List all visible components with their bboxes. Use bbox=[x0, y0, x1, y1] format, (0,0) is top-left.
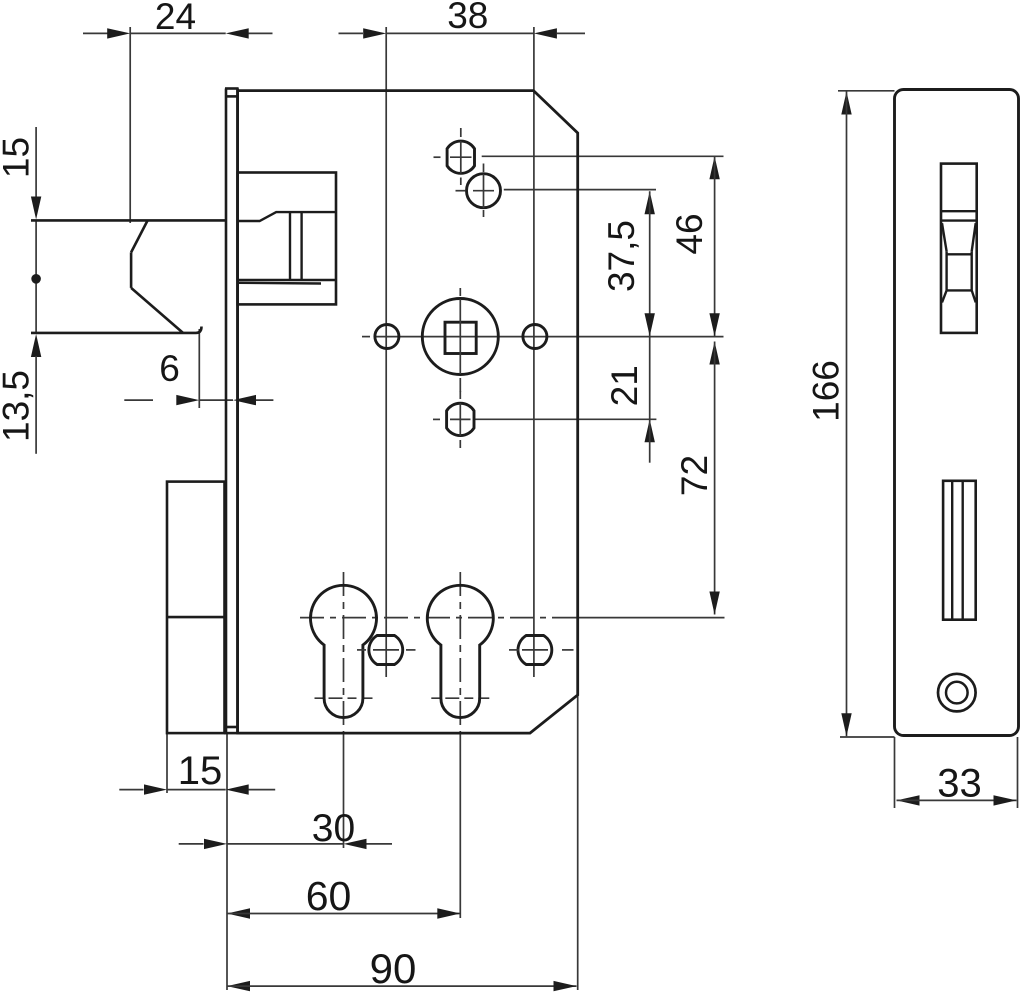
spindle follower circle bbox=[422, 299, 498, 375]
latch bolt head bbox=[31, 220, 226, 333]
svg-text:15: 15 bbox=[178, 749, 223, 793]
deadbolt cutout bbox=[943, 481, 976, 620]
cylinder centerline right x=460.3 bbox=[459, 572, 461, 918]
extension line x=534 (38-dim right ref) bbox=[533, 27, 535, 677]
dimension 72 bbox=[674, 342, 720, 615]
svg-text:72: 72 bbox=[674, 455, 715, 496]
dimension 37,5 bbox=[601, 191, 655, 336]
faceplate left edge bbox=[225, 89, 228, 734]
cylinder hole right (europrofile) bbox=[427, 585, 493, 717]
dimension 15 bottom bbox=[119, 749, 275, 795]
latch tail box bbox=[238, 173, 336, 305]
svg-text:60: 60 bbox=[306, 873, 352, 919]
dimension 15 left bbox=[0, 127, 41, 454]
extension line y=332.9 (latch bottom) bbox=[31, 332, 199, 334]
svg-text:37,5: 37,5 bbox=[601, 220, 642, 292]
svg-text:30: 30 bbox=[312, 807, 355, 850]
extension line y=189.5 (upper hole to 37.5-dim) bbox=[504, 189, 656, 191]
cylinder cross line left y=698 bbox=[315, 697, 373, 699]
extension line y=419.3 (lower screw hole to 21-dim) bbox=[475, 418, 657, 420]
dimension 90 bbox=[227, 945, 577, 992]
latch front detail bbox=[941, 211, 977, 302]
pin hole left bbox=[375, 325, 399, 349]
cylinder centerline left x=343.5 bbox=[343, 572, 345, 848]
keyway screw hole left bbox=[369, 636, 403, 665]
extension line y=156 (top screw hole to 46-dim) bbox=[482, 155, 724, 157]
horizontal center line y=337 (spindle axis) bbox=[362, 336, 724, 338]
faceplate bottom cap bbox=[224, 727, 239, 733]
dimension 30 bbox=[179, 807, 392, 850]
screw hole top (D-hole) bbox=[447, 141, 474, 173]
dimension 6 bbox=[124, 348, 273, 405]
svg-text:21: 21 bbox=[604, 365, 645, 406]
keyway screw hole right bbox=[518, 636, 552, 665]
faceplate screw hole bbox=[938, 674, 976, 712]
lock case outline bbox=[238, 91, 578, 734]
cylinder cross line right y=698 bbox=[431, 697, 489, 699]
svg-text:13,5: 13,5 bbox=[0, 370, 37, 442]
faceplate front view plate bbox=[895, 90, 1019, 736]
pin hole right bbox=[523, 325, 547, 349]
faceplate top cap bbox=[225, 89, 239, 97]
faceplate right edge bbox=[236, 89, 239, 734]
keyway screw hole left cross bbox=[357, 649, 416, 651]
spindle square hole bbox=[445, 322, 476, 353]
svg-text:90: 90 bbox=[370, 945, 417, 992]
keyway screw hole right cross bbox=[509, 649, 574, 651]
case-edge extension x=577.7 bbox=[577, 695, 579, 990]
extension line x=199.3 bbox=[198, 329, 200, 408]
bottom reference line x=227 bbox=[226, 733, 228, 990]
svg-text:46: 46 bbox=[669, 213, 710, 254]
reference dot (latch axis) bbox=[31, 274, 41, 284]
upper hole (circle) bbox=[467, 174, 501, 208]
screw hole lower (D-hole) bbox=[447, 403, 474, 435]
svg-text:6: 6 bbox=[159, 348, 180, 389]
latch cutout bbox=[941, 164, 977, 333]
extension line x=130 (latch tip) bbox=[129, 27, 131, 223]
dimension 60 bbox=[227, 873, 460, 919]
screw hole top cross bbox=[434, 128, 472, 185]
svg-text:15: 15 bbox=[0, 137, 37, 178]
spindle vertical centerline bbox=[459, 288, 461, 392]
svg-text:166: 166 bbox=[806, 360, 847, 422]
deadbolt bbox=[167, 482, 225, 733]
svg-text:33: 33 bbox=[937, 762, 982, 806]
dimension 46 bbox=[669, 156, 720, 336]
upper hole cross bbox=[456, 164, 495, 218]
svg-text:24: 24 bbox=[155, 0, 196, 37]
dimension 24 bbox=[83, 0, 273, 39]
deadbolt extension x=167 bbox=[166, 733, 168, 793]
extension line x=386 (38-dim left ref) bbox=[385, 27, 387, 677]
screw hole lower cross bbox=[433, 391, 471, 448]
dimension 38 bbox=[339, 0, 586, 39]
dimension 166 bbox=[806, 91, 895, 737]
horizontal center line y=617.5 (cylinder axis) bbox=[300, 617, 725, 619]
svg-text:38: 38 bbox=[447, 0, 488, 36]
extension line y=220.4 (latch top) bbox=[31, 219, 226, 221]
dimension 21 bbox=[604, 336, 655, 462]
cylinder hole left (europrofile) bbox=[311, 585, 377, 717]
latch tail inner lines bbox=[238, 212, 336, 283]
dimension 33 bbox=[895, 737, 1018, 808]
